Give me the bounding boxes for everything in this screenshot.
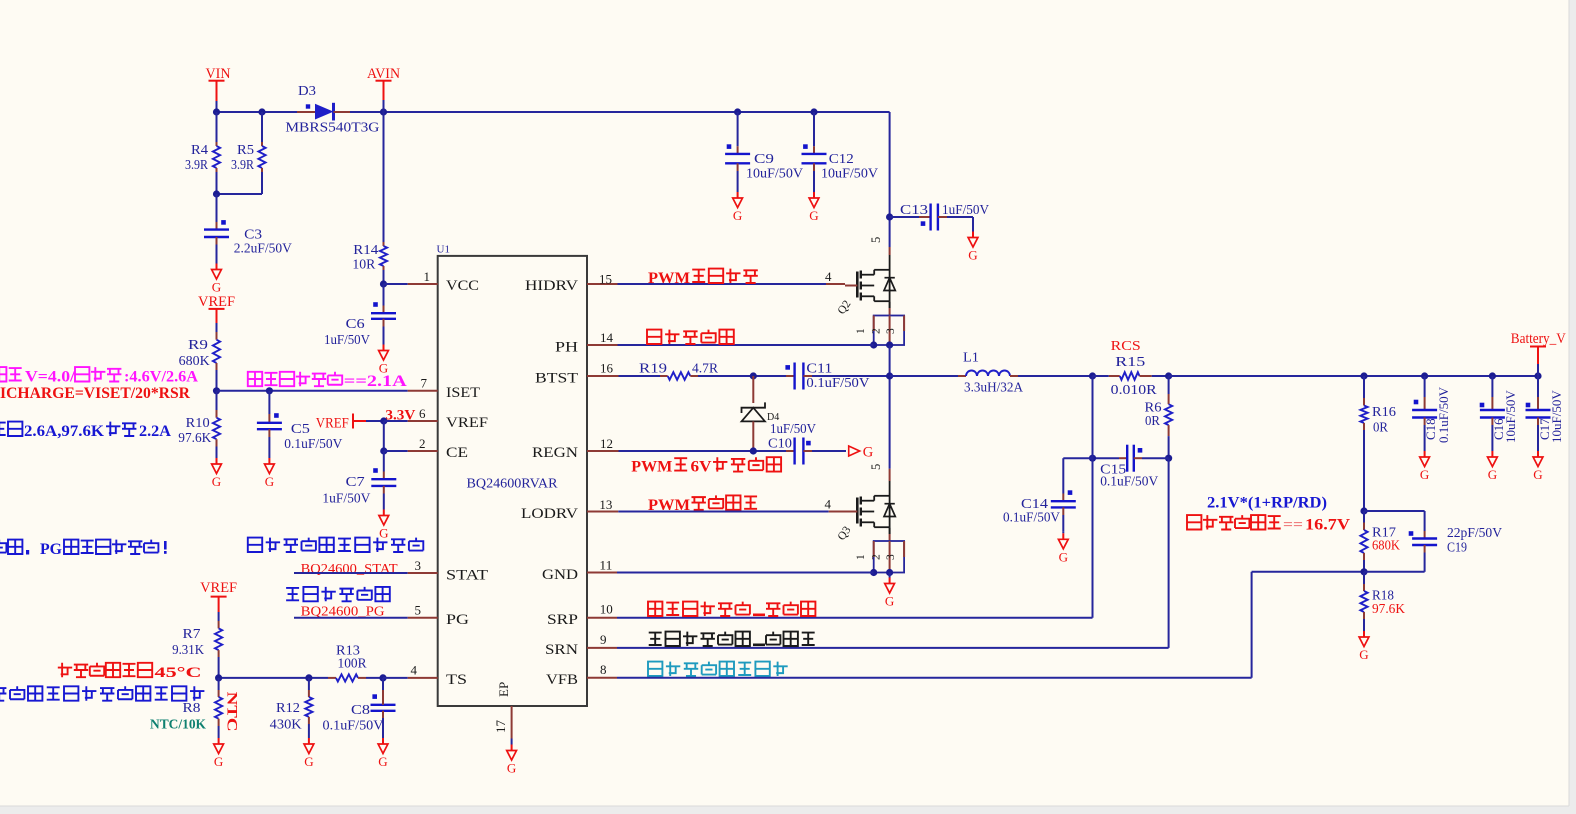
svg-text:4.7R: 4.7R: [692, 360, 718, 375]
svg-text:G: G: [507, 761, 516, 776]
ground below R12: [308, 737, 310, 739]
capacitor C9: [737, 112, 739, 146]
svg-text:2.2A: 2.2A: [139, 423, 172, 440]
wire VREF pin: [384, 420, 408, 422]
pin 6 VREF: [408, 420, 438, 422]
svg-text:2: 2: [871, 328, 883, 334]
svg-text:RCS: RCS: [1111, 338, 1141, 353]
svg-text:G: G: [1488, 467, 1497, 482]
svg-text:G: G: [968, 248, 977, 263]
svg-text:1uF/50V: 1uF/50V: [942, 202, 989, 217]
node C15 right: [1165, 455, 1172, 462]
capacitor C15: [1093, 457, 1120, 459]
ground below R10: [216, 456, 218, 458]
svg-text:C7: C7: [346, 474, 365, 489]
svg-text:4: 4: [825, 497, 832, 512]
ground below pin 17: [511, 739, 513, 745]
svg-text:G: G: [1533, 467, 1542, 482]
pin 2 CE: [408, 450, 438, 452]
ground below C12: [813, 190, 815, 192]
pin 3 STAT: [408, 572, 438, 574]
svg-text:R19: R19: [639, 360, 667, 375]
ground right of C13: [972, 230, 974, 232]
diode D3: [297, 111, 315, 113]
svg-text:0.1uF/50V: 0.1uF/50V: [323, 718, 384, 733]
svg-text:10uF/50V: 10uF/50V: [1549, 390, 1564, 443]
svg-text:2: 2: [871, 554, 883, 560]
annotation NTC note (blue, clipped): [0, 688, 6, 701]
svg-text::4.6V/2.6A: :4.6V/2.6A: [124, 369, 199, 386]
wire AVIN rail down to Q2: [889, 112, 891, 242]
ground below C6: [383, 343, 385, 345]
svg-text:9.31K: 9.31K: [172, 642, 204, 657]
svg-text:G: G: [304, 754, 313, 769]
pin 8 VFB: [587, 677, 617, 679]
svg-text:1: 1: [855, 554, 867, 560]
wire STAT net: [294, 572, 408, 574]
annotation drive negative supply (red): [647, 330, 661, 344]
transistor Q3 package pins 1-2-3 box: [889, 527, 891, 534]
ground below C3: [216, 262, 218, 264]
transistor Q2 package pins 1-2-3 box: [889, 301, 891, 308]
annotation SRN sense negative (black): [649, 633, 662, 645]
svg-text:2.1V*(1+RP/RD): 2.1V*(1+RP/RD): [1207, 495, 1327, 512]
pin 1 VCC: [408, 283, 438, 285]
node switch/BTST: [886, 372, 893, 379]
svg-text:R10: R10: [186, 415, 210, 430]
wire R4/R5 bottoms: [217, 193, 263, 195]
svg-text:22pF/50V: 22pF/50V: [1447, 525, 1502, 540]
svg-text:1uF/50V: 1uF/50V: [770, 421, 816, 436]
wire L1 to R15: [1018, 375, 1093, 377]
svg-text:2.6A,97.6K: 2.6A,97.6K: [24, 423, 104, 440]
wire C10 to ground symbol: [812, 450, 846, 452]
node CE junction: [380, 447, 387, 454]
node C18 tap: [1421, 372, 1428, 379]
node TS C8: [379, 674, 386, 681]
svg-text:VREF: VREF: [200, 580, 237, 596]
svg-text:0.1uF/50V: 0.1uF/50V: [1003, 510, 1060, 525]
capacitor C12: [813, 112, 815, 146]
svg-text:13: 13: [599, 497, 612, 512]
resistor R4: [216, 112, 218, 142]
pin 11 GND: [587, 572, 617, 574]
node GND junction: [870, 569, 877, 576]
svg-text:SRP: SRP: [547, 612, 578, 628]
svg-text:VREF: VREF: [446, 415, 488, 431]
node C13 tap: [886, 213, 893, 220]
pin 4 TS: [408, 677, 438, 679]
resistor R5: [261, 112, 263, 142]
wire VFB riser: [617, 677, 1252, 679]
svg-text:1: 1: [424, 269, 431, 284]
svg-text:7: 7: [421, 376, 428, 391]
svg-text:10: 10: [600, 602, 613, 617]
wire TS net: [219, 677, 328, 679]
svg-text:BQ24600RVAR: BQ24600RVAR: [467, 477, 559, 492]
wire AVIN down to R14: [383, 112, 385, 242]
svg-text:3.3uH/32A: 3.3uH/32A: [964, 380, 1023, 395]
svg-text:C5: C5: [291, 421, 310, 436]
ground below C16: [1491, 449, 1493, 451]
svg-text:D3: D3: [298, 84, 316, 99]
wire PG net: [294, 617, 408, 619]
svg-text:G: G: [1059, 549, 1068, 564]
svg-text:C10: C10: [768, 436, 792, 451]
svg-text:3.9R: 3.9R: [185, 157, 208, 172]
svg-text:R5: R5: [237, 142, 254, 157]
wire GND net: [617, 572, 874, 574]
wire SRP riser: [1092, 376, 1094, 618]
svg-text:15: 15: [599, 272, 612, 287]
node VIN rail: [213, 108, 220, 115]
svg-text:G: G: [212, 280, 221, 295]
resistor R8: [218, 678, 220, 690]
ground below C9: [737, 190, 739, 192]
annotation cutoff charge temperature 45C (red): [58, 663, 72, 677]
pin 5 PG: [408, 617, 438, 619]
svg-text:0.010R: 0.010R: [1111, 382, 1157, 397]
svg-text:C8: C8: [351, 702, 370, 717]
svg-text:PG: PG: [446, 612, 469, 628]
node TS R12: [305, 674, 312, 681]
annotation charge current setting (magenta): [248, 372, 262, 386]
svg-text:3: 3: [885, 554, 897, 560]
wire CE pin: [384, 450, 408, 452]
window gutter bottom: [0, 806, 1576, 814]
capacitor C3: [216, 194, 218, 222]
node D4 bottom: [750, 447, 757, 454]
svg-text:0.1uF/50V: 0.1uF/50V: [284, 436, 342, 451]
annotation VFB adjust (teal): [648, 662, 662, 676]
svg-text:LODRV: LODRV: [521, 506, 578, 522]
svg-text:G: G: [809, 208, 818, 223]
svg-text:430K: 430K: [270, 717, 302, 732]
svg-text:5: 5: [869, 237, 883, 243]
resistor R9: [216, 323, 218, 332]
svg-text:10uF/50V: 10uF/50V: [821, 166, 878, 181]
svg-text:R12: R12: [276, 700, 300, 715]
svg-text:G: G: [1359, 647, 1368, 662]
svg-text:5: 5: [415, 603, 422, 618]
wire R19 to C11: [698, 375, 786, 377]
svg-text:V=4.0/: V=4.0/: [25, 369, 76, 386]
svg-text:C11: C11: [806, 360, 832, 375]
svg-text:GND: GND: [542, 567, 578, 583]
wire C11 to switch node: [812, 375, 890, 377]
svg-text:G: G: [379, 526, 388, 541]
svg-text:R14: R14: [353, 242, 378, 257]
svg-text:EP: EP: [496, 682, 511, 697]
pin 9 SRN: [587, 647, 617, 649]
svg-text:16: 16: [600, 360, 614, 375]
annotation charge voltage setting (red): [1187, 515, 1201, 529]
node C15 left / SRP riser: [1089, 455, 1096, 462]
ground below C18: [1424, 449, 1426, 451]
svg-text:10R: 10R: [352, 257, 375, 272]
resistor R7: [218, 612, 220, 621]
ground below Q3: [889, 573, 891, 578]
svg-text:4: 4: [825, 269, 832, 284]
svg-text:VCC: VCC: [446, 278, 479, 294]
node PH junction: [870, 341, 877, 348]
svg-text:Battery_V: Battery_V: [1511, 331, 1566, 347]
wire HIDRV to Q2 gate: [618, 283, 827, 285]
svg-text:100R: 100R: [338, 656, 367, 671]
svg-text:TS: TS: [446, 672, 467, 688]
wire PH net: [618, 344, 874, 346]
capacitor C7: [383, 451, 385, 472]
svg-text:R9: R9: [188, 337, 208, 352]
transistor Q2: [889, 242, 891, 247]
ground right of C10: [849, 446, 860, 456]
svg-text:6V: 6V: [691, 459, 713, 476]
capacitor C10: [786, 450, 795, 452]
pin 12 REGN: [587, 450, 619, 452]
pin 15 HIDRV: [587, 283, 618, 285]
ground below C5: [268, 456, 270, 458]
resistor R16: [1363, 376, 1365, 398]
wire output rail to battery: [1169, 375, 1538, 377]
svg-text:BQ24600_PG: BQ24600_PG: [301, 604, 385, 619]
svg-text:1uF/50V: 1uF/50V: [324, 332, 370, 347]
capacitor C11: [786, 375, 795, 377]
svg-text:4: 4: [411, 663, 418, 678]
wire switch node down: [889, 345, 891, 376]
node R16 top: [1360, 372, 1367, 379]
svg-text:680K: 680K: [1372, 538, 1400, 553]
capacitor C16: [1491, 376, 1493, 397]
svg-text:680K: 680K: [179, 353, 210, 368]
capacitor C18: [1424, 376, 1426, 397]
svg-text:3.9R: 3.9R: [231, 157, 254, 172]
node R17 top: [1360, 507, 1367, 514]
svg-text:10uF/50V: 10uF/50V: [746, 166, 803, 181]
svg-text:VFB: VFB: [546, 672, 578, 688]
svg-text:BTST: BTST: [535, 371, 578, 387]
node R17 bottom / VFB: [1360, 568, 1367, 575]
annotation current note (blue, clipped): [0, 423, 6, 435]
window gutter right: [1569, 0, 1576, 814]
node R4 bottom: [213, 190, 220, 197]
pin 14 PH: [587, 344, 618, 346]
svg-text:PG: PG: [40, 541, 62, 558]
svg-text:97.6K: 97.6K: [178, 430, 211, 445]
svg-text:L1: L1: [963, 349, 979, 364]
resistor R18: [1363, 572, 1365, 584]
wire BTST net: [619, 375, 661, 377]
capacitor C19 parallel loop: [1364, 510, 1425, 512]
svg-text:G: G: [863, 445, 874, 461]
svg-text:HIDRV: HIDRV: [525, 278, 578, 294]
capacitor C17: [1537, 376, 1539, 397]
svg-text:0.1uF/50V: 0.1uF/50V: [1100, 473, 1158, 488]
node C5 tap: [266, 387, 273, 394]
svg-text:8: 8: [600, 662, 607, 677]
svg-text:PWM: PWM: [631, 459, 672, 476]
resistor R10: [216, 391, 218, 410]
svg-text:R7: R7: [183, 626, 201, 641]
wire ISET net: [217, 390, 408, 392]
ground below R8: [218, 737, 220, 739]
svg-text:VIN: VIN: [206, 66, 232, 82]
svg-text:U1: U1: [437, 244, 450, 256]
resistor R15 current sense: [1093, 375, 1109, 377]
node C16 tap: [1489, 372, 1496, 379]
svg-text:G: G: [265, 474, 274, 489]
capacitor C5: [268, 391, 270, 414]
svg-text:1uF/50V: 1uF/50V: [322, 491, 370, 506]
svg-text:G: G: [885, 594, 894, 609]
svg-text:0R: 0R: [1373, 420, 1388, 435]
annotation charge status output (blue): [248, 538, 262, 552]
resistor R13: [328, 677, 336, 679]
pin 10 SRP: [587, 617, 617, 619]
wire REGN net: [619, 450, 787, 452]
wire switch to L1: [890, 375, 958, 377]
svg-text:REGN: REGN: [532, 445, 578, 461]
svg-text:R15: R15: [1115, 354, 1145, 369]
svg-text:6: 6: [419, 406, 426, 421]
inductor L1: [958, 375, 966, 377]
svg-text:==: ==: [1283, 517, 1303, 534]
svg-text:ISET: ISET: [446, 385, 480, 401]
svg-text:0R: 0R: [1145, 413, 1160, 428]
svg-text:0.1uF/50V: 0.1uF/50V: [806, 375, 869, 390]
wire top rail VIN to D3 to AVIN to corner: [217, 111, 298, 113]
svg-text:0.1uF/50V: 0.1uF/50V: [1436, 386, 1451, 443]
ground below C7: [383, 508, 385, 510]
op-amp U1 BQ24600RVAR body: [438, 256, 587, 706]
annotation formula (magenta, clipped): [0, 367, 6, 381]
wire VREF to CE: [383, 421, 385, 451]
svg-text:9: 9: [600, 632, 607, 647]
wire to VCC pin: [384, 283, 408, 285]
annotation power good output (blue): [286, 588, 299, 600]
svg-text:CE: CE: [446, 445, 468, 461]
svg-text:PWM: PWM: [648, 270, 690, 287]
ground below C8: [382, 737, 384, 739]
svg-text:14: 14: [600, 330, 614, 345]
node C12 tap: [810, 108, 817, 115]
node VCC junction: [380, 280, 387, 287]
zener diode D4: [752, 376, 754, 403]
resistor R6: [1168, 376, 1170, 394]
node ISET at R9: [213, 387, 220, 394]
svg-text:NTC: NTC: [224, 692, 240, 732]
svg-text:G: G: [1420, 467, 1429, 482]
svg-text:G: G: [214, 754, 223, 769]
resistor R19: [660, 375, 668, 377]
annotation SRP sense positive (red): [648, 602, 662, 616]
svg-text:C19: C19: [1447, 540, 1467, 555]
svg-text:G: G: [212, 474, 221, 489]
svg-text:VREF: VREF: [198, 294, 235, 310]
svg-text:10uF/50V: 10uF/50V: [1503, 390, 1518, 443]
svg-text:VREF: VREF: [316, 416, 349, 432]
node SRP sense left: [1089, 372, 1096, 379]
capacitor C14: [1063, 457, 1092, 459]
svg-text:STAT: STAT: [446, 568, 488, 584]
node C17 / Battery_V tap: [1534, 372, 1541, 379]
node C9 tap: [734, 108, 741, 115]
svg-text:C6: C6: [346, 316, 365, 331]
node SRN sense right: [1165, 372, 1172, 379]
svg-text:5: 5: [869, 464, 883, 470]
svg-text:C12: C12: [829, 151, 854, 166]
svg-text:97.6K: 97.6K: [1372, 601, 1405, 616]
svg-text:2: 2: [419, 436, 426, 451]
svg-text:R16: R16: [1372, 404, 1396, 419]
svg-text:MBRS540T3G: MBRS540T3G: [285, 120, 379, 135]
node TS R7: [215, 674, 222, 681]
svg-text:SRN: SRN: [545, 642, 578, 658]
svg-text:C9: C9: [754, 151, 774, 166]
svg-text:G: G: [733, 208, 742, 223]
svg-text:G: G: [378, 754, 387, 769]
capacitor C13: [890, 216, 919, 218]
svg-text:ICHARGE=VISET/20*RSR: ICHARGE=VISET/20*RSR: [0, 385, 190, 402]
annotation PG low note (blue, clipped): [0, 540, 6, 553]
svg-text:1: 1: [855, 328, 867, 334]
svg-text:2.2uF/50V: 2.2uF/50V: [234, 241, 292, 256]
pin 16 BTST: [587, 375, 619, 377]
pin 13 LODRV: [587, 511, 618, 513]
svg-text:12: 12: [600, 436, 613, 451]
svg-text:3: 3: [885, 328, 897, 334]
capacitor C8: [382, 678, 384, 690]
resistor R14: [383, 242, 385, 246]
svg-text:NTC/10K: NTC/10K: [150, 717, 206, 732]
transistor Q3: [889, 469, 891, 481]
pin 17 EP pad: [511, 706, 513, 739]
svg-text:17: 17: [493, 720, 508, 734]
ground below C14: [1062, 531, 1064, 533]
wire LODRV to Q3 gate: [618, 511, 828, 513]
svg-text:R8: R8: [183, 700, 201, 715]
svg-text:AVIN: AVIN: [367, 66, 401, 82]
svg-text:R4: R4: [191, 142, 208, 157]
svg-text:16.7V: 16.7V: [1305, 517, 1350, 534]
svg-text:45°C: 45°C: [155, 665, 202, 681]
node VREF junction: [380, 417, 387, 424]
capacitor C6: [383, 284, 385, 306]
ground below C17: [1537, 449, 1539, 451]
svg-text:C3: C3: [244, 227, 262, 242]
svg-text:C13: C13: [900, 202, 928, 217]
svg-text:3: 3: [415, 558, 422, 573]
wire SRN riser: [1168, 458, 1170, 648]
wire TS to pin: [383, 677, 408, 679]
ground below R18: [1363, 630, 1365, 632]
resistor R12: [308, 678, 310, 690]
pin 7 ISET: [408, 390, 438, 392]
svg-text:11: 11: [599, 558, 612, 573]
resistor R17: [1363, 511, 1365, 523]
svg-text:PH: PH: [555, 340, 578, 356]
node D4 top: [750, 372, 757, 379]
svg-text:==2.1A: ==2.1A: [344, 373, 408, 390]
